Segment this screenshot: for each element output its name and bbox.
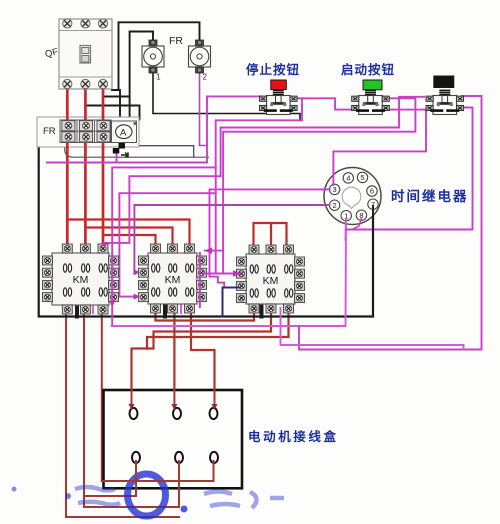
wire red motor U2 drop	[135, 461, 137, 496]
arrow into KM1 top	[102, 243, 108, 249]
wire red KM1 b3 down left	[102, 310, 214, 481]
wire red KM3 top middle stub	[270, 223, 272, 246]
wire magenta relay pin1 loop	[112, 220, 346, 326]
svg-text:电动机接线盒: 电动机接线盒	[248, 429, 339, 444]
wire overlay: KM1 right coil feed	[111, 253, 113, 305]
svg-text:A: A	[120, 128, 127, 139]
wire red KM2 b3 to motor W1	[191, 310, 215, 406]
contactor KM3	[237, 245, 305, 313]
arrow into KM2 left row4	[134, 294, 141, 300]
wire black: QF to FU2 top	[112, 22, 200, 90]
wire overlay: navy link	[223, 288, 241, 317]
FR block screws over wires	[62, 121, 75, 131]
svg-text:4: 4	[346, 174, 350, 183]
wire dark FR aux line	[124, 146, 194, 158]
wire magenta KM2 right column drop	[199, 253, 201, 307]
wire red phase L2	[84, 84, 87, 249]
wire red KM2 b1 to KM3 b1	[156, 310, 255, 321]
start button (green)	[352, 80, 390, 115]
wire black: hook down into FR block	[119, 90, 121, 120]
contactor KM2	[139, 244, 207, 313]
fuse FU1	[142, 40, 164, 82]
svg-text:FR: FR	[169, 35, 183, 47]
thermal relay FR block	[37, 117, 139, 158]
wire magenta KM2 left row4 branch	[119, 193, 215, 296]
wire magenta stop button feed	[47, 96, 262, 162]
wire magenta stop to start lower-left	[296, 98, 356, 109]
svg-text:时间继电器: 时间继电器	[391, 188, 469, 204]
time relay socket	[324, 168, 381, 225]
wire magenta FR aux drop	[116, 153, 118, 163]
wire red phase L1	[66, 84, 69, 249]
wire red KM1 b2 down left	[84, 310, 179, 507]
wire overlay: KM2-KM3 coil link	[204, 273, 240, 275]
pink stub KM1	[92, 305, 94, 313]
watermark	[12, 474, 285, 516]
wire magenta KM2 right to KM3 left link	[204, 273, 240, 275]
wire magenta relay pin8 to black btn LR	[346, 218, 362, 230]
wire red KM2 b2 to motor V1	[173, 310, 175, 406]
breaker QF	[44, 19, 112, 89]
wire red branch L3 to KM2	[103, 235, 156, 246]
wire magenta start lower-right to black btn	[387, 109, 427, 111]
svg-text:FR: FR	[43, 126, 56, 137]
wire black: FU1 bottom to control	[153, 70, 300, 120]
contactor KM1	[43, 244, 119, 314]
wire black: QF b2 hook to FR block	[86, 84, 140, 120]
wire magenta start upper-right to KM2 coil	[223, 98, 415, 273]
wire magenta stop branch to KM1 coil	[216, 98, 302, 273]
wire overlay: relay pin stubs	[372, 206, 374, 240]
pink stub KM2	[180, 305, 182, 313]
svg-text:5: 5	[360, 173, 364, 182]
wire gray FR aux to relay column	[65, 146, 209, 157]
wire red bottom link	[84, 495, 136, 497]
wire overlay: red phases through FR block	[66, 118, 69, 148]
svg-text:停止按钮: 停止按钮	[246, 62, 300, 77]
wire magenta relay pin3 staircase to KM3 coil	[210, 189, 330, 287]
arrow KM1 coil	[109, 301, 115, 308]
arrow into KM2 right row1	[205, 247, 212, 253]
wire red KM3 b3 crossover	[147, 310, 289, 349]
svg-text:2: 2	[203, 73, 208, 82]
wire overlay: motor bottom drops	[135, 461, 137, 496]
coil stub KM1	[75, 304, 79, 317]
wire overlay: motor feeds through box	[131, 389, 133, 406]
svg-text:KM: KM	[73, 274, 89, 286]
wire red phase L3	[102, 84, 105, 249]
wire red motor V2 drop	[178, 461, 180, 507]
wire overlay: KM2 right column	[199, 253, 201, 307]
svg-text:KM: KM	[263, 275, 279, 287]
wire red KM3 top jumper arch	[254, 223, 287, 246]
wire navy KM3 coil link	[223, 288, 241, 317]
wire magenta nest to KM1 top arrow	[105, 176, 221, 249]
motor terminal box	[104, 390, 243, 488]
timed button (black)	[426, 76, 464, 115]
wire black: QF b3 to FU1 top	[103, 84, 130, 97]
FR aux terminals	[119, 143, 126, 149]
svg-text:1: 1	[156, 73, 161, 82]
svg-text:6: 6	[370, 187, 374, 196]
wire red KM1 b1 down left	[66, 310, 179, 517]
wire magenta FU2 bottom drop	[200, 70, 208, 146]
wire red branch L2 to KM2	[85, 228, 172, 247]
arrowheads motor feeds	[129, 404, 218, 410]
svg-text:启动按钮: 启动按钮	[341, 62, 395, 77]
wire black bus bottom loop / relay pin7	[39, 118, 373, 317]
wire red KM3 b2 to motor U1	[132, 310, 272, 406]
svg-text:2: 2	[333, 201, 337, 210]
wire pink KM3 coil bottom loop	[281, 308, 464, 350]
coil stub KM2	[163, 304, 167, 317]
svg-text:KM: KM	[165, 274, 181, 286]
stop button (red)	[260, 80, 298, 115]
wire red branch L1 to KM2	[67, 220, 189, 247]
coil stub KM3	[260, 304, 264, 317]
arrow into KM2 left row2	[134, 269, 141, 275]
wire magenta nest line to black btn UL	[221, 97, 424, 176]
wire magenta black btn LL to relay pin3	[333, 110, 426, 185]
wire red motor W2 drop	[213, 461, 215, 481]
wire magenta relay pin2 to KM2 left	[134, 205, 329, 272]
svg-text:3: 3	[333, 185, 337, 194]
fuse FU2	[189, 40, 211, 82]
